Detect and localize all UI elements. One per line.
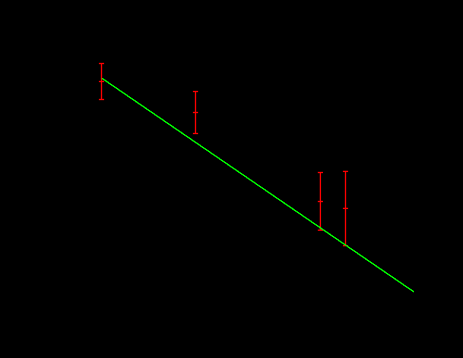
error bar 4 xyxy=(343,171,348,245)
error bar 2 xyxy=(193,92,198,134)
error bar 3 xyxy=(318,173,323,231)
fit line xyxy=(102,78,414,291)
error bar 1 xyxy=(99,64,104,100)
